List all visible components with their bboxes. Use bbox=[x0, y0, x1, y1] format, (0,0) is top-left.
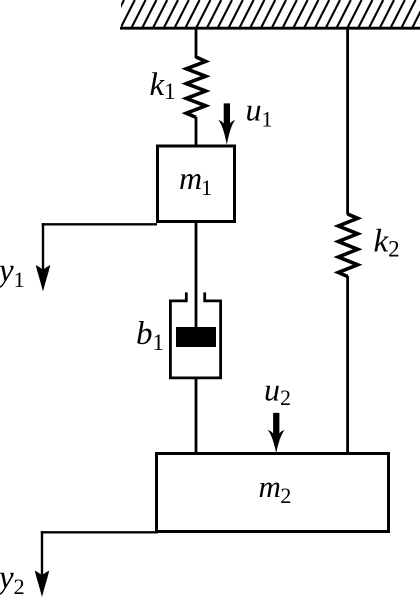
rod damper to mass m2 bbox=[195, 377, 198, 453]
wire ceiling to spring k1 bbox=[195, 28, 198, 58]
ceiling baseline bbox=[120, 27, 420, 30]
spring k2 bbox=[338, 214, 357, 277]
arrowhead y2 bbox=[35, 571, 50, 598]
arrowhead y1 bbox=[36, 265, 51, 292]
force arrow u2 bbox=[268, 413, 285, 453]
mass m1 box bbox=[158, 146, 235, 222]
force arrow u1 bbox=[218, 103, 235, 144]
damper b1 piston bbox=[176, 327, 216, 347]
mass m2 box bbox=[157, 454, 389, 532]
spring k1 bbox=[186, 57, 205, 117]
damper b1 cylinder bbox=[169, 292, 222, 379]
wire ceiling to spring k2 bbox=[346, 28, 349, 215]
ceiling (fixed support with hatching) bbox=[110, 0, 420, 28]
wire spring k1 to mass m1 bbox=[195, 117, 198, 146]
wire y1 (output pickoff from m1) bbox=[42, 223, 157, 225]
wire y2 (output pickoff from m2) bbox=[41, 531, 158, 533]
piston rod m1 to damper bbox=[195, 221, 198, 328]
wire spring k2 to mass m2 bbox=[346, 276, 349, 453]
